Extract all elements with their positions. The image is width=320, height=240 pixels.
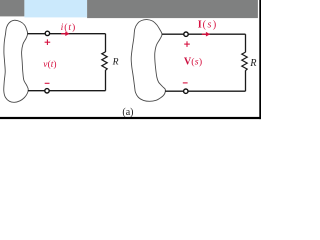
svg-text:I: I: [198, 20, 202, 31]
svg-text:R: R: [249, 58, 257, 69]
banner gray left block: [0, 0, 24, 16]
svg-text:R: R: [112, 57, 119, 68]
source blob left (v(t) source): [4, 20, 29, 102]
plus sign left: [45, 39, 51, 45]
terminal node right top: [184, 32, 188, 36]
banner light blue block: [24, 0, 87, 17]
wire right resistor bottom vertical: [245, 70, 247, 91]
wire right bottom: [165, 90, 245, 92]
wire left right-side vertical: [105, 34, 107, 52]
svg-text:i: i: [61, 22, 64, 33]
minus sign left: [45, 82, 50, 84]
svg-text:(s): (s): [191, 57, 202, 68]
current arrow left: [61, 31, 69, 36]
current arrow right: [202, 32, 210, 37]
terminal node right bottom: [184, 89, 188, 93]
resistor R (right): [242, 52, 247, 71]
wire left bottom: [28, 90, 106, 92]
minus sign right: [183, 82, 188, 84]
svg-text:(t): (t): [64, 22, 76, 33]
wire right right-side vertical: [245, 34, 247, 52]
wire left top: [27, 33, 105, 35]
frame right vertical line: [259, 0, 261, 119]
svg-text:(s): (s): [203, 20, 218, 31]
terminal node left top: [45, 31, 49, 35]
wire left resistor bottom vertical: [105, 70, 107, 91]
plus sign right: [184, 41, 190, 47]
wire right top: [162, 33, 246, 35]
resistor R (left): [102, 52, 107, 71]
frame bottom horizontal line: [0, 117, 261, 119]
source blob right (V(s) source): [131, 20, 165, 102]
terminal node left bottom: [45, 89, 49, 93]
banner gray right block: [87, 0, 258, 18]
svg-text:(a): (a): [122, 107, 133, 118]
svg-text:(t): (t): [48, 59, 57, 70]
